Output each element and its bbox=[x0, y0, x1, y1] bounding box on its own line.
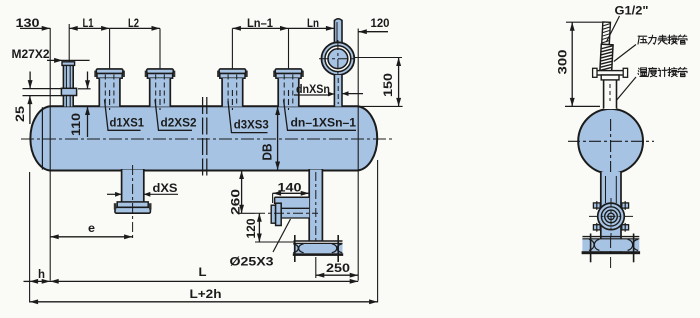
dim 25 extension lines bbox=[23, 88, 63, 90]
svg-text:e: e bbox=[88, 221, 95, 235]
svg-text:DB: DB bbox=[261, 144, 275, 161]
base spring curves bbox=[589, 239, 599, 250]
label d1XS1 bbox=[105, 100, 141, 131]
vessel centerline bbox=[21, 138, 392, 140]
dim h and L bbox=[24, 280, 30, 282]
vessel shell body bbox=[30, 106, 377, 170]
dim Ln-1 bbox=[232, 27, 288, 29]
thermometer pipe (lower) bbox=[604, 75, 617, 109]
flange dn (face view circle) bbox=[322, 42, 355, 75]
flange bolt lugs bbox=[593, 203, 600, 208]
end view base plate bbox=[582, 236, 639, 238]
svg-text:d1XS1: d1XS1 bbox=[110, 117, 145, 129]
end view centerlines bbox=[568, 140, 654, 142]
leg base plate bbox=[294, 240, 343, 242]
svg-text:110: 110 bbox=[69, 113, 83, 136]
nozzle dn riser pipe upper bbox=[334, 21, 342, 47]
nozzle dn-1 bbox=[273, 69, 304, 110]
svg-text:dnXSn: dnXSn bbox=[296, 84, 330, 96]
svg-text:250: 250 bbox=[326, 261, 350, 275]
dim L+2h bbox=[30, 301, 378, 303]
nozzle dXS centerline bbox=[132, 165, 134, 240]
nozzle dXS flange bbox=[117, 202, 148, 207]
svg-text:Ln–1: Ln–1 bbox=[247, 16, 273, 30]
label pressure-gauge pipe (Chinese) bbox=[638, 35, 687, 44]
side pipe boss bbox=[275, 197, 310, 218]
dim 250 bbox=[315, 257, 317, 278]
nozzle d1 bbox=[94, 69, 125, 110]
svg-text:Ln: Ln bbox=[307, 16, 319, 30]
dn pipe width arrow right bbox=[342, 93, 363, 95]
base spring curves bbox=[293, 244, 303, 253]
leader thermometer pipe bbox=[616, 77, 636, 100]
pressure gauge pipe (hatched, tilted) bbox=[600, 22, 614, 74]
dim 150 extension lines bbox=[355, 57, 402, 59]
extension line d3 bbox=[231, 28, 233, 69]
svg-text:L+2h: L+2h bbox=[190, 287, 222, 301]
svg-text:L2: L2 bbox=[128, 16, 139, 30]
label d3XS3 bbox=[228, 101, 268, 133]
svg-text:130: 130 bbox=[16, 16, 40, 30]
svg-text:300: 300 bbox=[556, 49, 570, 74]
drain flange (face view) bbox=[598, 203, 625, 230]
dim L2 bbox=[110, 27, 160, 29]
dim 150 bbox=[398, 58, 400, 107]
dim 140 bbox=[273, 192, 310, 194]
dim 300 bbox=[566, 21, 605, 23]
dim Ln bbox=[289, 27, 335, 29]
dim 25 arrows bbox=[29, 72, 31, 89]
svg-text:25: 25 bbox=[13, 106, 27, 122]
svg-text:Ø25X3: Ø25X3 bbox=[230, 255, 274, 269]
support leg pipe bbox=[309, 170, 322, 242]
end view: vessel circle bbox=[578, 109, 643, 174]
svg-text:260: 260 bbox=[229, 189, 243, 215]
dim L1 bbox=[69, 27, 109, 29]
svg-text:G1/2": G1/2" bbox=[615, 4, 649, 18]
coupling top cap bbox=[62, 62, 75, 66]
leader for M27X2 bbox=[47, 59, 90, 61]
dim 110 arrows bbox=[87, 72, 89, 89]
nozzle d3 bbox=[217, 69, 248, 110]
svg-text:120: 120 bbox=[244, 218, 258, 238]
extension line d1 bbox=[109, 28, 111, 69]
base bolts bbox=[590, 234, 592, 263]
side pipe centerline bbox=[255, 212, 318, 214]
svg-text:140: 140 bbox=[278, 181, 302, 195]
dim 120 (top right) bbox=[358, 31, 388, 33]
svg-text:L: L bbox=[199, 265, 207, 279]
left head tangent seam bbox=[41, 107, 43, 169]
label dn-1XSn-1 bbox=[284, 100, 357, 131]
base anchor bolts bbox=[294, 235, 296, 262]
break lines (shell interruption) bbox=[202, 97, 204, 179]
wire: left tangent extension line x=50 bbox=[49, 28, 51, 281]
dim 130 bbox=[20, 27, 50, 29]
extension line M27X2 center bbox=[68, 24, 70, 62]
leader G1/2 bbox=[606, 16, 619, 42]
nozzle dXS pipe bbox=[122, 170, 144, 202]
dim 260 bbox=[241, 171, 243, 214]
dim e bbox=[50, 236, 132, 238]
dim DB bbox=[277, 107, 279, 171]
nozzle dn riser pipe lower bbox=[334, 75, 342, 107]
side pipe flange bbox=[271, 205, 275, 223]
svg-text:150: 150 bbox=[381, 73, 395, 97]
wire: right tangent extension line x=358 bbox=[357, 29, 359, 281]
dim dXS arrows bbox=[107, 193, 122, 195]
label d2XS2 bbox=[155, 100, 192, 131]
union flange bbox=[595, 71, 627, 75]
svg-text:120: 120 bbox=[371, 16, 390, 30]
extension line right head end bbox=[377, 160, 379, 303]
svg-text:h: h bbox=[38, 267, 45, 281]
svg-text:d2XS2: d2XS2 bbox=[161, 117, 197, 129]
dim 120 (vertical, leg) bbox=[258, 213, 260, 242]
svg-text:L1: L1 bbox=[83, 16, 94, 30]
extension line dn-1 bbox=[288, 28, 290, 104]
svg-text:d3XS3: d3XS3 bbox=[234, 120, 269, 132]
drain flange centerline bbox=[589, 215, 634, 217]
leg pipe below vessel bbox=[601, 172, 621, 252]
leader for pipe spec bbox=[273, 219, 291, 252]
leader pressure pipe bbox=[614, 45, 636, 62]
coupling collar bbox=[61, 88, 76, 95]
label thermometer pipe (Chinese) bbox=[638, 67, 687, 76]
flange centerlines bbox=[319, 58, 357, 60]
extension line left head end bbox=[29, 172, 31, 303]
svg-text:M27X2: M27X2 bbox=[12, 47, 50, 61]
end view vertical centerline lower bbox=[610, 236, 612, 268]
svg-text:dn–1XSn–1: dn–1XSn–1 bbox=[291, 117, 357, 129]
svg-text:dXS: dXS bbox=[153, 183, 178, 195]
nozzle d2 bbox=[145, 69, 176, 110]
coupling M27X2 pipe bbox=[63, 63, 73, 107]
extension line d2 bbox=[159, 28, 161, 69]
